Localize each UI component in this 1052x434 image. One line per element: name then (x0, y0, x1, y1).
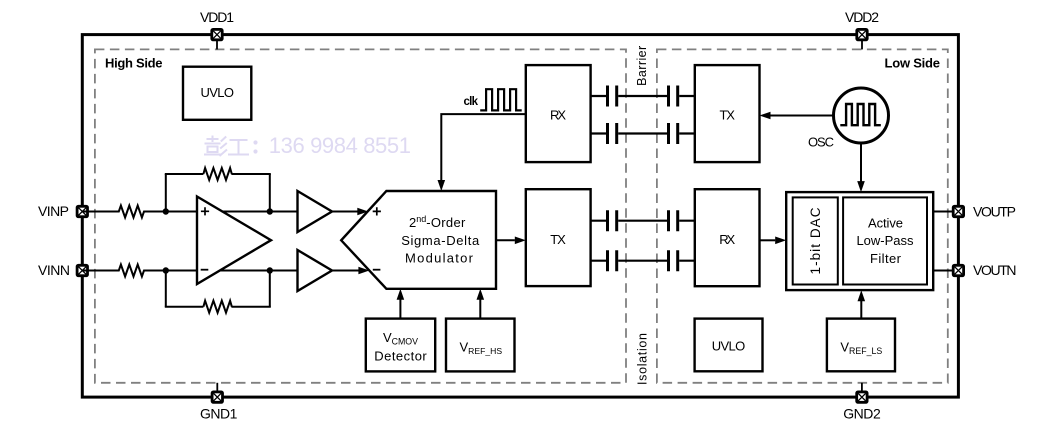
isolation caps channel 2 plates (608, 123, 678, 144)
isolation caps channel 1 wires (591, 95, 695, 97)
feedback top rail right segment (231, 173, 270, 175)
arrowhead into TX (515, 237, 526, 245)
modulator minus sign (373, 269, 381, 271)
pin VDD2 stub (861, 35, 863, 50)
isolation caps channel 4 wires (591, 260, 695, 262)
wire VREF_HS to modulator (479, 300, 481, 319)
svg-text:Active: Active (868, 216, 903, 231)
watermark colon dots (253, 140, 257, 153)
box VREF_LS (827, 319, 895, 372)
buffer amp N (298, 250, 333, 291)
wire resistor to op-amp (-) (148, 270, 199, 272)
arrowhead into modulator plus (357, 208, 368, 216)
feedback resistor top (203, 168, 231, 180)
pin GND1 (211, 391, 224, 404)
op-amp A1 (197, 197, 271, 285)
oscillator waveform (840, 104, 880, 125)
high side dashed box (95, 49, 626, 382)
svg-text:GND2: GND2 (843, 406, 881, 422)
isolation caps channel 3 wires (591, 220, 695, 222)
pin VDD1 stub (216, 35, 218, 50)
feedback resistor bottom (203, 301, 231, 313)
box RX low side (695, 189, 760, 286)
clk waveform (480, 89, 521, 110)
arrowhead into TX low side (760, 112, 771, 120)
svg-text:UVLO: UVLO (712, 339, 746, 354)
svg-text:VINP: VINP (38, 203, 69, 219)
svg-text:Low-Pass: Low-Pass (856, 233, 914, 248)
wire VINP to resistor (82, 211, 115, 213)
svg-text:Detector: Detector (374, 349, 427, 364)
svg-text:OSC: OSC (808, 135, 834, 150)
wire filter to VOUTN (933, 270, 952, 272)
box UVLO high side (183, 67, 251, 120)
wire resistor to op-amp (+) (148, 211, 199, 213)
box TX high side (526, 189, 591, 286)
wire VCMOV to modulator (399, 300, 401, 319)
wire buffer P to modulator (332, 211, 359, 213)
DAC/filter outer box (786, 192, 933, 290)
feedback bottom rail left segment (165, 306, 204, 308)
svg-text:VOUTP: VOUTP (973, 204, 1016, 220)
wire RX to DAC (760, 239, 776, 241)
sigma-delta modulator U1 (341, 191, 496, 289)
watermark glyph gong (228, 140, 249, 155)
svg-text:RX: RX (719, 232, 735, 247)
box TX low side (695, 65, 760, 162)
watermark glyph peng (204, 136, 221, 155)
isolation caps channel 2 wires (591, 132, 695, 134)
feedback network bottom: left vertical wire (165, 271, 167, 307)
wire modulator to TX (496, 239, 515, 241)
wire VINN to resistor (82, 270, 115, 272)
resistor R-INP (115, 206, 149, 218)
pin VDD2 (855, 28, 868, 41)
oscillator OSC circle (834, 88, 889, 143)
watermark glyph san strokes (220, 137, 228, 157)
isolation caps channel 4 plates (608, 250, 678, 271)
svg-text:Low Side: Low Side (885, 55, 941, 70)
svg-text:Filter: Filter (870, 251, 902, 266)
isolation caps channel 3 plates (608, 210, 678, 231)
svg-text:High Side: High Side (105, 56, 163, 71)
resistor R-INN (115, 265, 149, 277)
node input P (163, 208, 169, 214)
svg-text:VDD1: VDD1 (200, 9, 234, 25)
wire VREF_LS to filter (860, 301, 862, 319)
pin VINP (76, 205, 89, 218)
pin VOUTN (952, 264, 965, 277)
arrowhead clk into modulator top (438, 180, 446, 191)
svg-text:Sigma-Delta: Sigma-Delta (401, 233, 480, 248)
op-amp minus sign (201, 269, 209, 271)
svg-text:VOUTN: VOUTN (973, 262, 1017, 278)
pin GND1 stub (216, 383, 218, 397)
pin VDD1 (210, 28, 223, 41)
pin GND2 stub (861, 383, 863, 397)
arrowhead into modulator minus (358, 267, 369, 275)
box VCMOV detector (366, 319, 435, 372)
svg-text:Isolation: Isolation (636, 333, 650, 385)
wire OSC to DAC/filter (860, 143, 862, 182)
node input N (163, 267, 169, 273)
wire op-amp out P to buffer (222, 211, 298, 213)
node op-amp out P (267, 208, 273, 214)
arrowhead VREF_LS into filter (858, 290, 866, 301)
node op-amp out N (267, 267, 273, 273)
watermark (204, 136, 249, 157)
feedback network top: left vertical wire (165, 174, 167, 212)
feedback bottom rail right segment (231, 306, 270, 308)
svg-text:Barrier: Barrier (635, 46, 649, 86)
1-bit DAC box (793, 197, 838, 284)
arrowhead into DAC/filter top (857, 181, 865, 192)
svg-text:1-bit DAC: 1-bit DAC (808, 207, 823, 274)
op-amp plus sign (201, 207, 209, 215)
pin VOUTP (952, 205, 965, 218)
svg-text:GND1: GND1 (200, 406, 238, 422)
svg-text:VINN: VINN (38, 262, 70, 278)
feedback top rail left segment (165, 173, 204, 175)
clk wire from RX to modulator (441, 114, 526, 181)
active low-pass filter box (843, 197, 927, 284)
modulator plus sign (373, 207, 381, 215)
outer chip border (82, 35, 958, 398)
buffer amp P (298, 191, 333, 232)
low side dashed box (657, 49, 948, 382)
isolation caps channel 1 plates (608, 86, 678, 107)
arrowhead VCMOV into modulator (397, 289, 405, 300)
box RX high side (526, 65, 591, 162)
wire OSC to TX low side (771, 115, 834, 117)
arrowhead into DAC left (775, 237, 786, 245)
svg-text:clk: clk (464, 96, 479, 108)
svg-text:TX: TX (719, 108, 735, 123)
pin GND2 (855, 391, 868, 404)
svg-text:UVLO: UVLO (200, 85, 234, 100)
wire filter to VOUTP (933, 211, 952, 213)
arrowhead VREF_HS into modulator (477, 289, 485, 300)
box VREF_HS (446, 319, 515, 372)
svg-text:RX: RX (550, 108, 566, 123)
pin VINN (76, 264, 89, 277)
feedback top: right vertical wire (269, 174, 271, 212)
svg-text:TX: TX (550, 232, 566, 247)
svg-text:136 9984 8551: 136 9984 8551 (269, 133, 411, 158)
svg-text:VDD2: VDD2 (845, 9, 879, 25)
feedback bottom: right vertical wire (269, 271, 271, 307)
box UVLO low side (695, 319, 763, 372)
wire op-amp out N to buffer (220, 270, 298, 272)
wire buffer N to modulator (332, 270, 360, 272)
svg-text:Modulator: Modulator (405, 251, 474, 266)
